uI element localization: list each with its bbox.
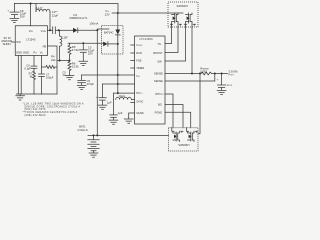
wire SFB rail [103,83,135,85]
wire SGND [129,113,135,119]
resistor R7 [29,71,36,94]
mosfet box Q3 Q4 Si4500DY [169,128,199,151]
svg-text:22µF: 22µF [52,14,59,18]
wire sense row [165,73,201,75]
node rail84 [117,83,119,85]
svg-text:BG: BG [158,103,162,107]
svg-text:Si4500DY: Si4500DY [178,143,190,147]
transistor Q3 [172,128,183,142]
wire battery riser [96,30,98,135]
capacitor C11 1uF [110,100,123,120]
svg-text:35V: 35V [20,15,25,19]
node center drop bottom [117,92,119,94]
diode D3 horizontal [103,42,118,47]
capacitor C7 [39,56,54,95]
ground R6 [65,76,74,80]
svg-text:L1B*: L1B* [62,36,69,40]
diode D2 vertical [115,13,120,44]
wire center drop [117,44,119,93]
node battery riser top [96,29,98,31]
capacitor C6 [24,56,37,72]
svg-text:GND GND: GND GND [16,50,29,54]
diode D1 [70,13,88,33]
chip U2 LTC1435A [135,36,166,124]
node output [214,73,216,75]
battery BAT1 [77,124,99,152]
wire FB trunk [48,46,58,94]
node 13V junction [117,12,119,14]
wire top rail 13V [14,4,118,14]
wire pin stubs U2 left [131,45,135,103]
svg-text:FB: FB [43,44,47,48]
resistor R6 [62,61,79,78]
node sense left [191,73,193,75]
wire PGND down [165,112,191,128]
capacitor COUT [217,74,234,91]
node VSW [49,29,51,31]
label 13V [105,9,118,17]
svg-text:100mA: 100mA [90,21,99,25]
svg-text:SGND: SGND [136,111,144,115]
svg-text:SYNC: SYNC [136,100,143,104]
svg-text:SENSE: SENSE [154,79,163,83]
ground C8 [10,18,19,22]
node divider tap [69,60,71,62]
svg-text:4 CELLS: 4 CELLS [77,128,88,132]
resistor R5 [68,43,79,60]
note text block [23,101,84,117]
ground C11 [109,120,118,124]
chip U1 LT1543 [15,26,47,56]
node cout [221,73,223,75]
wire VIN drop [30,4,32,26]
svg-text:BAT54C: BAT54C [104,30,114,34]
resistor RSENSE [200,66,227,75]
svg-text:BOOST: BOOST [153,51,162,55]
wire into diode box [97,29,109,30]
label 3.3V output [228,69,237,76]
wire 13V rail right [118,12,183,14]
svg-text:FCB: FCB [136,59,141,63]
ground C9 [77,85,86,89]
transistor Q2 [184,13,195,27]
svg-text:S/S: S/S [16,40,21,44]
node L1B bottom [59,60,61,62]
svg-text:0.1µF: 0.1µF [24,66,31,70]
svg-text:TG: TG [157,42,161,46]
wire BG down [165,105,183,128]
wire D1 to box [78,29,98,31]
ground C10 [98,105,107,109]
wire VSW row [48,29,53,31]
transistor Q1 [170,13,181,27]
svg-text:470pF: 470pF [87,82,95,86]
ground U2 [124,119,133,123]
node rail75 [117,74,119,76]
label 5V IN AND/OR SHDN [1,36,15,46]
svg-text:47.5k: 47.5k [72,48,79,52]
svg-text:SW: SW [157,60,162,64]
wire to D1 [59,29,73,31]
wire 13V2 row [68,42,103,44]
svg-text:SENSE: SENSE [154,72,163,76]
ground rail symbol [16,94,25,100]
capacitor C3 [79,43,94,61]
svg-text:1µF: 1µF [107,100,112,104]
wire sense minus [165,74,215,82]
inductor L1A [36,4,50,31]
wire FB to divider [57,60,70,62]
svg-text:13.3k: 13.3k [72,65,79,69]
svg-text:Si4500DY: Si4500DY [177,4,189,8]
svg-text:25V: 25V [88,52,93,56]
capacitor C10 1uF [96,84,112,105]
svg-text:13V: 13V [105,13,110,17]
node VIN junction [30,3,32,5]
resistor R4 [42,55,58,69]
inductor L1B [60,30,69,60]
wire battery rail [88,134,169,136]
svg-text:100µF: 100µF [46,76,54,80]
capacitor C2 22uF [52,10,60,34]
chip1 bottom pin drops [18,56,21,95]
mosfet box Q1 Q2 Si4500DY [168,2,198,27]
capacitor C9 470pF [78,75,95,86]
svg-text:SHDN: SHDN [3,42,11,46]
wire BOOST [165,27,178,53]
wire SW node to bottom box [198,74,200,134]
svg-text:LT1543: LT1543 [26,38,36,42]
wire ITH rail [82,74,135,76]
svg-text:PGND: PGND [155,110,163,114]
wire SW [165,27,186,61]
node D2 D3 junction [117,43,119,45]
svg-text:RUN: RUN [136,51,142,55]
svg-text:10µH: 10µH [118,94,125,98]
capacitor C8 [7,4,26,19]
inductor L2 10uH [114,93,135,99]
svg-text:BAT1: BAT1 [79,124,86,128]
wire top box to sense row [191,27,193,74]
ground COUT [217,90,226,94]
wire INTVCC down [165,94,173,128]
node SW riser [199,73,201,75]
wire PVCC rail [114,92,135,94]
svg-text:1µF: 1µF [118,111,123,115]
transistor Q4 [186,128,197,142]
svg-text:TIMER: TIMER [136,66,144,70]
svg-text:(408) 432-8020: (408) 432-8020 [24,113,46,117]
ground battery [89,153,98,157]
ground C3 [79,61,88,65]
node C3 [82,42,84,44]
node battery [93,134,95,136]
svg-text:L1A*: L1A* [37,6,44,10]
wire TG [165,27,172,44]
dual diode box D2 D3 [102,26,123,54]
svg-text:LTC1435A: LTC1435A [140,37,154,41]
svg-text:MMBD914LT1: MMBD914LT1 [70,16,88,20]
svg-text:24k: 24k [51,58,56,62]
wire ground rail [16,93,57,95]
node battery riser bottom [96,134,98,136]
node L1B branch [58,29,60,31]
